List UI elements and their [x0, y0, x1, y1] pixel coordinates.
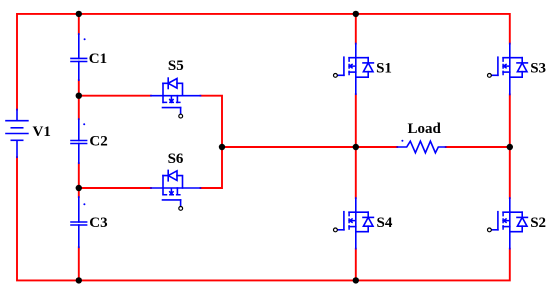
transistor S2 [488, 198, 547, 249]
svg-text:S1: S1 [376, 60, 392, 76]
node: C2-C3 junction [76, 185, 82, 191]
node: bottom rail / left bridge leg [353, 277, 359, 283]
svg-text:C2: C2 [89, 134, 107, 150]
wire: S5 left (C1/C2 node) [79, 95, 151, 97]
transistor S6 [151, 151, 201, 210]
node: mid column / load [219, 144, 225, 150]
node: C1-C2 junction [76, 93, 82, 99]
svg-text:C3: C3 [89, 215, 107, 231]
wire: capacitor column bottom [78, 247, 80, 280]
resistor Load [397, 121, 446, 153]
svg-text:S4: S4 [377, 215, 393, 231]
node: left leg / load [353, 144, 359, 150]
wire: S1 drain from top rail [355, 14, 357, 44]
wire: S3-S2 link [509, 95, 511, 199]
node: top rail / left bridge leg [353, 11, 359, 17]
transistor S1 [334, 44, 392, 95]
svg-text:C1: C1 [89, 51, 107, 67]
wire: load left [222, 146, 397, 148]
wire: S4 source to bottom rail [355, 249, 357, 281]
wire: C1-C2 link [78, 80, 80, 119]
wire: capacitor column top [78, 14, 80, 34]
capacitor C3 [71, 197, 108, 247]
battery V1 [6, 110, 51, 158]
transistor S3 [488, 44, 547, 95]
wire: S1-S4 link [355, 94, 357, 198]
svg-text:V1: V1 [33, 124, 51, 140]
capacitor C1 [71, 34, 107, 80]
svg-text:S3: S3 [530, 60, 546, 76]
node: top rail / capacitor column [76, 11, 82, 17]
node: right leg / load [507, 144, 513, 150]
transistor S5 [151, 58, 201, 118]
svg-text:S6: S6 [168, 151, 184, 167]
svg-text:S5: S5 [168, 58, 184, 74]
transistor S4 [334, 198, 393, 249]
node: bottom rail / capacitor column [76, 277, 82, 283]
svg-text:Load: Load [408, 121, 442, 137]
wire: left rail top + top rail + right leg upper [17, 14, 510, 110]
wire: C2-C3 link [78, 163, 80, 197]
wire: S5 right + mid column + S6 right [201, 96, 223, 188]
wire: S6 left (C2/C3 node) [79, 187, 151, 189]
wire: load right [446, 146, 510, 148]
svg-text:S2: S2 [530, 215, 546, 231]
capacitor C2 [71, 119, 108, 163]
wire: left rail bottom + bottom rail + right leg lower [17, 157, 510, 280]
